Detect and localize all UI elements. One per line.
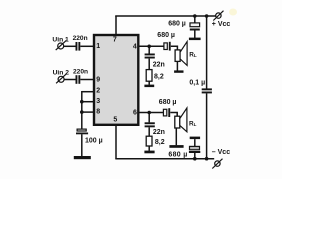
svg-text:L: L	[194, 53, 197, 58]
wire ground to C bottom	[194, 139, 196, 146]
capacitor 680u upper box plate	[164, 43, 167, 50]
wire pin 8 to bus	[82, 111, 94, 113]
node bottom rail / C bottom 680u	[193, 157, 197, 161]
capacitor 680u top solid plate	[190, 29, 200, 31]
wire R to ground upper	[148, 81, 150, 85]
svg-text:680 µ: 680 µ	[159, 99, 177, 106]
svg-text:220n: 220n	[73, 35, 88, 42]
svg-text:22n: 22n	[153, 62, 165, 69]
capacitor 220n lower plates	[76, 75, 78, 84]
wire C top to ground	[194, 31, 196, 39]
wire 22n to R upper	[148, 59, 150, 70]
capacitor 680u bottom solid plate	[189, 151, 200, 153]
svg-text:0,1 µ: 0,1 µ	[189, 80, 205, 87]
ground under 100u	[74, 156, 91, 159]
svg-text:220n: 220n	[73, 68, 88, 75]
svg-text:9: 9	[96, 76, 100, 83]
connector +Vcc	[213, 11, 223, 21]
wire node to 22n lower	[148, 113, 150, 123]
wire bus vertical	[81, 91, 83, 129]
ground under upper 8,2	[144, 85, 154, 88]
scan artifact yellow smudge	[229, 9, 237, 16]
resistor 8,2 lower	[146, 136, 152, 146]
capacitor 22n lower plates	[145, 122, 155, 124]
wire pin 3 to bus	[82, 101, 94, 103]
capacitor 220n upper plates	[76, 42, 78, 51]
wire 100u to ground	[81, 134, 83, 156]
wire Uin2 to C2	[64, 79, 76, 81]
wire C2 to pin 9	[80, 79, 94, 81]
svg-text:8: 8	[96, 109, 100, 116]
wire 22n to R lower	[148, 127, 150, 136]
svg-text:8,2: 8,2	[155, 139, 165, 146]
node pin4 branch	[147, 45, 151, 49]
wire R to ground lower	[148, 146, 150, 151]
svg-text:680 µ: 680 µ	[157, 32, 175, 39]
speaker RL upper	[175, 42, 187, 66]
capacitor 100u solid plate	[76, 133, 88, 135]
wire pin7 to top rail	[115, 16, 117, 35]
svg-text:– Vcc: – Vcc	[212, 149, 230, 156]
capacitor 100u box plate	[77, 129, 86, 131]
svg-text:3: 3	[96, 98, 100, 105]
svg-text:7: 7	[113, 37, 117, 44]
capacitor 0,1u plates	[202, 88, 212, 90]
ground above bottom 680u	[190, 137, 200, 140]
ground under lower speaker	[169, 145, 183, 148]
capacitor 680u bottom box plate	[190, 146, 200, 149]
capacitor 22n upper plates	[145, 54, 155, 56]
node top rail / C top 680u	[193, 14, 197, 18]
svg-text:22n: 22n	[153, 129, 165, 136]
node bus pin8	[80, 110, 84, 114]
wire node to 22n upper	[148, 46, 150, 54]
speaker RL lower	[175, 108, 187, 132]
wire pin 5 to bottom rail	[115, 125, 117, 159]
wire C bottom to rail	[194, 153, 196, 159]
svg-text:680 µ: 680 µ	[168, 152, 187, 159]
wire pin 6 to node	[139, 112, 164, 114]
svg-text:1: 1	[96, 43, 100, 50]
resistor 8,2 upper	[146, 70, 152, 82]
wire C1 to pin 1	[80, 45, 94, 47]
connector -Vcc	[212, 159, 222, 169]
ground under upper speaker	[174, 70, 183, 72]
wire lower speaker to ground	[175, 128, 177, 145]
wire 0,1u to bottom rail	[206, 93, 208, 158]
capacitor 680u upper solid plate	[169, 42, 171, 51]
capacitor 680u top (electrolytic, box plate)	[190, 23, 200, 27]
svg-text:Uin 1: Uin 1	[52, 36, 69, 43]
capacitor 680u lower solid plate	[168, 108, 170, 117]
wire 0,1u vertical from top rail	[206, 16, 208, 89]
ground under lower 8,2	[144, 151, 154, 154]
wire speaker to ground	[176, 61, 178, 70]
wire pin 4 to node	[139, 45, 164, 47]
svg-text:680 µ: 680 µ	[168, 21, 186, 28]
wire bottom -Vcc rail	[115, 158, 214, 160]
node top rail / 0,1u line	[205, 14, 209, 18]
svg-text:+ Vcc: + Vcc	[212, 21, 231, 28]
wire cap to speaker lower	[170, 113, 177, 117]
svg-text:2: 2	[96, 88, 100, 95]
svg-text:100 µ: 100 µ	[85, 137, 103, 144]
svg-text:5: 5	[113, 117, 117, 124]
svg-text:8,2: 8,2	[154, 73, 164, 80]
ground under top 680u	[189, 38, 201, 41]
wire pin 2 to bus	[82, 91, 94, 93]
wire top rail to C top	[194, 16, 196, 23]
node pin6 branch	[147, 111, 151, 115]
IC U1 body	[94, 35, 138, 125]
capacitor 680u lower box plate	[163, 109, 166, 116]
wire Uin1 to C1	[64, 45, 76, 47]
svg-text:Uin 2: Uin 2	[53, 70, 70, 77]
node bottom rail / 0,1u line	[205, 157, 209, 161]
wire top +Vcc rail	[115, 15, 215, 17]
svg-text:6: 6	[133, 110, 137, 117]
wire cap to speaker	[171, 46, 178, 50]
svg-text:L: L	[194, 122, 197, 127]
node bus pin3	[80, 100, 84, 104]
svg-text:4: 4	[133, 43, 137, 50]
